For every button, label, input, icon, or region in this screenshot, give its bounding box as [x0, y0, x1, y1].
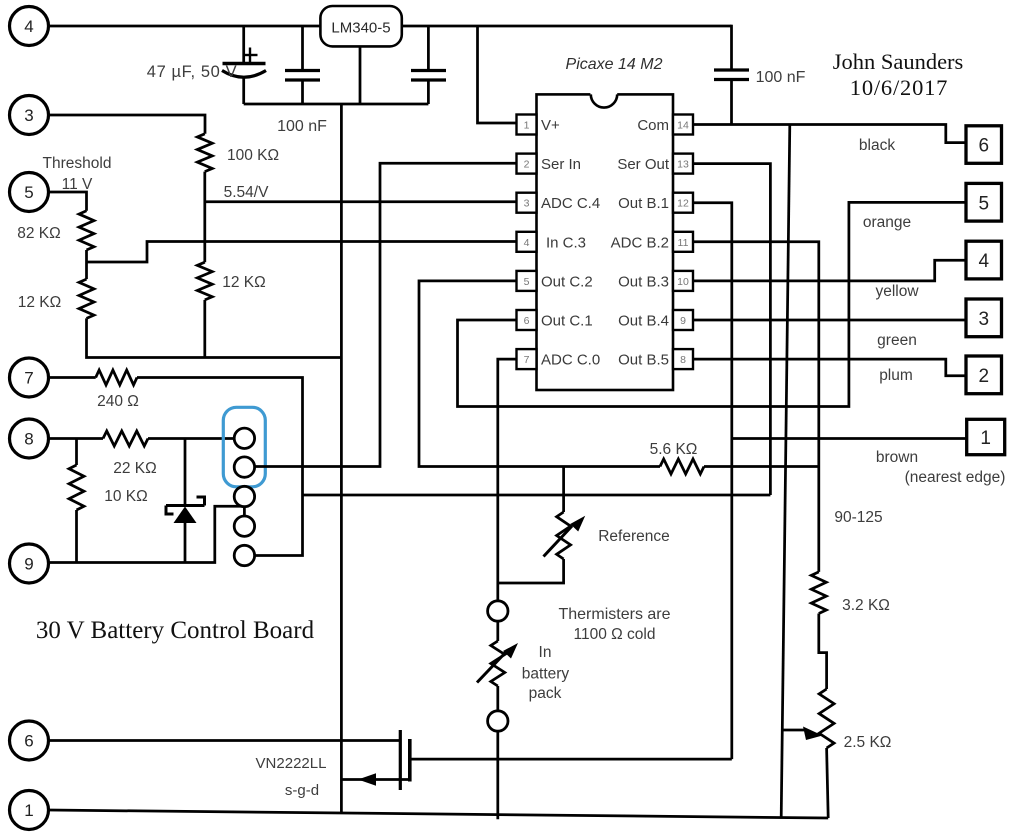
pad C [234, 486, 254, 506]
zener diode D1 [166, 439, 205, 563]
wire 12K bottom to ground rail [203, 300, 206, 358]
pin 5 label Out C.2 [541, 273, 593, 290]
wire 5.54/V node to pin 3 [205, 200, 517, 203]
svg-text:4: 4 [978, 251, 989, 272]
label Picaxe 14 M2 [566, 56, 663, 73]
svg-text:(nearest edge): (nearest edge) [905, 469, 1006, 486]
pin 9 label Out B.4 [618, 313, 669, 330]
wire V+ to pin 1 [478, 26, 518, 123]
wire pin12 OutB1 bus [693, 203, 732, 759]
label 1100 ohm cold [574, 626, 656, 643]
wire pin13 SerOut down [693, 164, 770, 495]
svg-text:13: 13 [677, 159, 689, 171]
svg-text:2.5 KΩ: 2.5 KΩ [844, 734, 892, 751]
terminal box 3 [966, 299, 1002, 337]
wire pin8 OutB5 to box 2 [693, 359, 966, 376]
label Thermisters are [558, 606, 670, 623]
pin 13 label Ser Out [617, 156, 670, 173]
label wire colour black [859, 137, 895, 154]
resistor R6 22K [103, 431, 148, 446]
svg-text:240 Ω: 240 Ω [97, 393, 139, 410]
pin 7 label ADC C.0 [541, 352, 600, 369]
wire pot bottom to rail [827, 748, 829, 818]
resistor R3 82K [79, 211, 94, 250]
svg-text:5: 5 [24, 183, 33, 202]
svg-text:10 KΩ: 10 KΩ [104, 488, 147, 505]
svg-text:100 nF: 100 nF [277, 118, 327, 135]
svg-text:V+: V+ [541, 117, 560, 134]
wire thermistor to pad G [496, 686, 499, 711]
svg-text:1: 1 [980, 428, 991, 449]
svg-text:s-g-d: s-g-d [285, 782, 319, 799]
pin 5 box [517, 271, 537, 291]
svg-text:Thermisters are: Thermisters are [558, 606, 670, 623]
svg-text:11 V: 11 V [62, 176, 93, 193]
capacitor C3 100nF [411, 26, 446, 104]
svg-text:Threshold: Threshold [43, 155, 112, 172]
label 12K right [222, 274, 265, 291]
pin 14 label Com [637, 117, 669, 134]
label wire colour brown [876, 449, 918, 466]
potentiometer R9 2.5K [819, 689, 834, 748]
wire pin14 Com to terminal 6 box [693, 125, 966, 143]
svg-text:11: 11 [678, 237, 689, 249]
svg-text:9: 9 [24, 555, 33, 574]
terminal circle 7 [10, 358, 49, 397]
pin 8 box [673, 349, 693, 369]
wire terminal 5 to 82K [49, 192, 87, 211]
pad E [234, 545, 254, 565]
terminal box 4 [966, 241, 1002, 279]
pin 11 label ADC B.2 [611, 234, 669, 251]
title 30V Battery Control Board [36, 617, 315, 644]
label 3.2K [842, 597, 890, 614]
terminal circle 4 [10, 7, 49, 46]
wire 22K to pad A [148, 437, 234, 440]
svg-text:4: 4 [524, 237, 530, 249]
wire pad C to pad D link [243, 506, 246, 516]
svg-text:10: 10 [677, 276, 689, 288]
svg-text:In: In [539, 644, 552, 661]
svg-text:8: 8 [680, 354, 686, 366]
wire pin9 OutB4 to box 3 [693, 319, 966, 322]
pin 3 box [517, 193, 537, 213]
terminal box 5 [966, 183, 1002, 221]
svg-text:7: 7 [24, 369, 33, 388]
wire Com down slanted [781, 125, 790, 818]
wire terminal 6 to gate [49, 739, 401, 742]
svg-text:2: 2 [978, 366, 989, 387]
svg-text:1100 Ω cold: 1100 Ω cold [574, 626, 656, 643]
terminal circle 6 [10, 721, 49, 760]
pin 4 label In C.3 [546, 234, 586, 251]
wire pin7 ADCC0 down [498, 359, 517, 601]
wire pin10 OutB3 to box 4 [693, 260, 966, 281]
label 22K [113, 460, 156, 477]
wire pad G down [496, 731, 499, 819]
svg-text:1: 1 [524, 120, 530, 132]
svg-text:10/6/2017: 10/6/2017 [850, 75, 948, 100]
wire terminal 8 lead [49, 437, 104, 440]
svg-text:John Saunders: John Saunders [833, 49, 964, 74]
pin 10 label Out B.3 [618, 273, 669, 290]
pin 11 box [673, 232, 693, 252]
svg-text:4: 4 [24, 17, 33, 36]
wire 12K left bottom to ground [87, 318, 342, 357]
capacitor C1 47uF electrolytic [222, 26, 266, 104]
label Threshold [43, 155, 112, 172]
svg-text:3: 3 [524, 198, 530, 210]
pin 1 label V+ [541, 117, 560, 134]
svg-text:8: 8 [24, 430, 33, 449]
svg-text:90-125: 90-125 [834, 509, 882, 526]
wire capacitor ground rail [244, 103, 429, 106]
label wire colour plum [879, 367, 913, 384]
terminal circle 5 [10, 173, 49, 212]
svg-text:6: 6 [24, 732, 33, 751]
label 5.6K [650, 441, 698, 458]
wire terminal 9 to pads C-D [49, 506, 245, 562]
svg-text:Out C.1: Out C.1 [541, 313, 593, 330]
svg-text:9: 9 [680, 315, 686, 327]
svg-text:green: green [877, 332, 917, 349]
resistor R4 12K left [79, 279, 94, 318]
label 100nF C2 [277, 118, 327, 135]
resistor R10 5.6K [660, 459, 704, 474]
wire pin5 OutC2 down [419, 281, 660, 467]
pin 13 box [673, 154, 693, 174]
svg-text:Out B.1: Out B.1 [618, 195, 669, 212]
wire drain to pin12 bus [410, 758, 732, 761]
wire 240ohm to connector pad E [137, 378, 303, 556]
svg-text:22 KΩ: 22 KΩ [113, 460, 156, 477]
svg-text:Reference: Reference [598, 528, 670, 545]
label 90-125 [834, 509, 882, 526]
svg-text:3: 3 [978, 309, 989, 330]
terminal circle 9 [10, 544, 49, 583]
wire LM340 ground tap [359, 46, 362, 104]
label 240ohm [97, 393, 139, 410]
svg-text:Ser In: Ser In [541, 156, 581, 173]
label John Saunders [833, 49, 964, 74]
wire 82K bottom node [85, 250, 88, 279]
label battery [522, 666, 570, 683]
pin 7 box [517, 349, 537, 369]
pin 4 box [517, 232, 537, 252]
svg-text:black: black [859, 137, 895, 154]
svg-text:12 KΩ: 12 KΩ [18, 294, 61, 311]
resistor R5 240ohm [96, 370, 137, 385]
svg-text:VN2222LL: VN2222LL [256, 755, 327, 772]
pad A [234, 428, 254, 448]
wire 5.6K to pin11 bus [704, 465, 819, 468]
wire threshold node jog to pin 4 [87, 242, 518, 263]
svg-text:yellow: yellow [875, 283, 919, 300]
wire pin12 to terminal 1 box [732, 437, 967, 440]
svg-text:100 KΩ: 100 KΩ [227, 147, 279, 164]
wire ground vertical bus [340, 104, 343, 813]
terminal box 1 [967, 419, 1005, 454]
label 100K [227, 147, 279, 164]
pin 14 box [673, 115, 693, 135]
capacitor C2 100nF [285, 26, 320, 104]
wire pin11 ADCB2 down [693, 242, 819, 572]
svg-text:In C.3: In C.3 [546, 234, 586, 251]
svg-text:5: 5 [978, 193, 989, 214]
pin 6 box [517, 310, 537, 330]
thermistor RT2 battery pack [477, 641, 518, 686]
wire pot wiper arrow [781, 727, 822, 741]
label 82K [17, 225, 60, 242]
label wire colour green [877, 332, 917, 349]
svg-text:Com: Com [637, 117, 669, 134]
label 2.5K [844, 734, 892, 751]
terminal box 2 [966, 356, 1002, 394]
svg-text:5: 5 [524, 276, 530, 288]
label 11V [62, 176, 93, 193]
label nearest edge [905, 469, 1006, 486]
svg-text:brown: brown [876, 449, 918, 466]
svg-text:Picaxe 14 M2: Picaxe 14 M2 [566, 56, 663, 73]
label 12K left [18, 294, 61, 311]
svg-text:ADC C.4: ADC C.4 [541, 195, 600, 212]
svg-text:Out B.3: Out B.3 [618, 273, 669, 290]
svg-text:12: 12 [677, 198, 689, 210]
pin 2 label Ser In [541, 156, 581, 173]
svg-text:orange: orange [863, 214, 911, 231]
svg-text:82 KΩ: 82 KΩ [17, 225, 60, 242]
terminal circle 3 [10, 96, 49, 135]
pad F [488, 601, 508, 621]
wire pad F to thermistor [496, 621, 499, 641]
IC U1 Picaxe 14M2 body [537, 92, 674, 390]
svg-text:100 nF: 100 nF [756, 69, 806, 86]
wire terminal 1 bottom rail [49, 810, 829, 818]
svg-text:battery: battery [522, 666, 570, 683]
svg-text:Out C.2: Out C.2 [541, 273, 593, 290]
label Reference [598, 528, 670, 545]
svg-text:30 V Battery Control Board: 30 V Battery Control Board [36, 617, 315, 644]
label 10/6/2017 [850, 75, 948, 100]
label In [539, 644, 552, 661]
svg-text:5.54/V: 5.54/V [224, 184, 269, 201]
wire pad B to pin 2 SerIn [255, 163, 517, 466]
label s-g-d [285, 782, 319, 799]
label wire colour orange [863, 214, 911, 231]
pin 2 box [517, 154, 537, 174]
pin 6 label Out C.1 [541, 313, 593, 330]
wire 10K bottom [75, 510, 78, 563]
wire thermistor jog [498, 559, 564, 583]
pad G [488, 711, 508, 731]
label pack [529, 685, 562, 702]
pin 8 label Out B.5 [618, 352, 669, 369]
svg-text:3.2 KΩ: 3.2 KΩ [842, 597, 890, 614]
resistor R2 12K right [197, 262, 212, 300]
svg-text:3: 3 [24, 106, 33, 125]
wire pin6 OutC1 to box 5 [458, 202, 967, 406]
terminal circle 8 [10, 419, 49, 458]
svg-text:6: 6 [978, 136, 989, 157]
svg-text:12 KΩ: 12 KΩ [222, 274, 265, 291]
svg-text:pack: pack [529, 685, 562, 702]
svg-text:Out B.4: Out B.4 [618, 313, 669, 330]
terminal box 6 [966, 126, 1002, 164]
wire 100K to divider node [203, 172, 206, 263]
terminal circle 1 [10, 791, 49, 830]
pad D [234, 516, 254, 536]
capacitor C4 100nF [714, 25, 749, 125]
pin 1 box [517, 115, 537, 135]
label 5.54/V [224, 184, 269, 201]
svg-text:14: 14 [677, 120, 689, 132]
pin 3 label ADC C.4 [541, 195, 600, 212]
wire 10K top tap [75, 439, 78, 466]
thermistor RT1 Reference [544, 467, 586, 560]
regulator U2 LM340-5 [320, 6, 401, 46]
pin 12 label Out B.1 [618, 195, 669, 212]
svg-text:Ser Out: Ser Out [617, 156, 670, 173]
label 10K [104, 488, 147, 505]
transistor Q1 VN2222LL mosfet [341, 730, 409, 790]
label wire colour yellow [875, 283, 919, 300]
label 100nF C4 [756, 69, 806, 86]
svg-text:5.6 KΩ: 5.6 KΩ [650, 441, 698, 458]
wire terminal 7 lead [49, 376, 96, 379]
wire V+ top rail from terminal 4 to right capacitor [48, 25, 732, 28]
svg-text:Out B.5: Out B.5 [618, 352, 669, 369]
svg-text:1: 1 [24, 801, 33, 820]
resistor R1 100K [197, 134, 212, 172]
connector outline (blue) [223, 407, 265, 487]
label 47uF 50V [147, 63, 237, 81]
resistor R7 10K [69, 465, 84, 510]
svg-text:ADC C.0: ADC C.0 [541, 352, 600, 369]
pin 10 box [673, 271, 693, 291]
svg-text:47 µF, 50 V: 47 µF, 50 V [147, 63, 237, 81]
svg-text:7: 7 [524, 354, 530, 366]
svg-text:6: 6 [524, 315, 530, 327]
pad B [234, 457, 254, 477]
pin 12 box [673, 193, 693, 213]
pin 9 box [673, 310, 693, 330]
svg-text:plum: plum [879, 367, 913, 384]
svg-text:2: 2 [524, 159, 530, 171]
wire 3.2K to pot [819, 614, 827, 690]
wire SerOut net to pin13 branch [303, 494, 771, 497]
resistor R8 3.2K [811, 572, 826, 614]
label VN2222LL [256, 755, 327, 772]
svg-text:ADC B.2: ADC B.2 [611, 234, 669, 251]
svg-text:LM340-5: LM340-5 [331, 20, 390, 37]
wire terminal 3 to 100K [49, 115, 206, 134]
